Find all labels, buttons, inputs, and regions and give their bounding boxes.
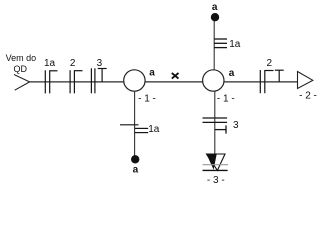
- svg-text:3: 3: [233, 120, 239, 131]
- svg-text:- 1 -: - 1 -: [217, 93, 235, 104]
- conductor marks, circuit 1a (top branch): [214, 39, 227, 48]
- svg-text:a: a: [212, 2, 218, 13]
- svg-text:a: a: [229, 68, 235, 79]
- svg-text:1a: 1a: [148, 124, 160, 135]
- incoming feeder arrow: [14, 75, 30, 91]
- conductor marks, circuit 2 (right run): [260, 70, 283, 93]
- arrow to busbar -3- : filled triangle: [207, 154, 217, 170]
- label: Vem do QD (source from distribution board): [6, 53, 37, 74]
- svg-text:a: a: [149, 68, 155, 79]
- conductor marks, circuit 2 (left run): [70, 70, 82, 93]
- conductor marks, circuit 1a (left run): [45, 70, 57, 93]
- conductor marks, circuit 3 (left run): [91, 68, 106, 93]
- svg-text:QD: QD: [13, 64, 27, 74]
- svg-text:2: 2: [267, 58, 273, 69]
- lamp point a (bottom, filled dot): [131, 155, 139, 163]
- node X label: [172, 73, 179, 79]
- conductor marks, circuit 3 (bottom-right branch): [203, 118, 228, 134]
- wire: bottom-right branch: [214, 91, 216, 154]
- conductor marks, circuit 1a (bottom-left branch): [120, 125, 148, 133]
- junction box right (circle): [203, 70, 224, 91]
- svg-text:3: 3: [97, 58, 103, 69]
- wire: bottom-left branch: [134, 91, 136, 159]
- outgoing feeder arrow -2- (open triangle): [298, 72, 313, 89]
- wire: main horizontal run: [30, 81, 298, 83]
- svg-text:- 1 -: - 1 -: [138, 93, 156, 104]
- arrow to busbar -3- : open triangle: [207, 154, 226, 170]
- svg-text:- 3 -: - 3 -: [207, 175, 225, 186]
- svg-text:- 2 -: - 2 -: [299, 90, 317, 101]
- busbar black line: [203, 169, 228, 171]
- svg-text:1a: 1a: [44, 58, 56, 69]
- busbar gray line: [203, 164, 229, 166]
- svg-text:1a: 1a: [229, 39, 241, 50]
- svg-text:a: a: [133, 164, 139, 175]
- svg-text:2: 2: [70, 58, 76, 69]
- svg-text:Vem do: Vem do: [6, 53, 37, 63]
- junction box left (circle): [124, 70, 145, 91]
- wire: top branch: [213, 17, 215, 70]
- lamp point a (top, filled dot): [211, 13, 219, 21]
